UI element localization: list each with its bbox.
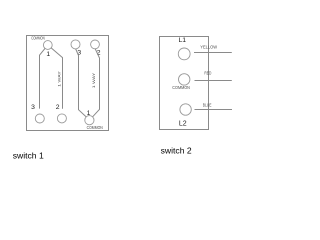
value label 1 WAY (pole B) <box>91 72 96 88</box>
terminal 3 pole A switch 1 <box>35 114 44 123</box>
switch 2 enclosure <box>160 37 209 130</box>
pin number 2 (pole A bottom) <box>56 104 60 111</box>
wire from terminal 1 to terminal 2 (pole A right) <box>51 48 63 109</box>
svg-text:1 WAY: 1 WAY <box>91 72 96 88</box>
svg-text:YELLOW: YELLOW <box>200 44 217 49</box>
label RED (wire) <box>204 71 211 76</box>
pin number 2 (pole B top) <box>97 50 101 57</box>
pin number 1 (pole B bottom) <box>87 110 91 117</box>
switch 1 enclosure <box>27 36 109 131</box>
svg-text:COMMON: COMMON <box>31 36 45 41</box>
label COMMON (switch 1 pole A top) <box>31 36 45 41</box>
terminal COMMON switch 2 <box>179 74 190 85</box>
svg-text:COMMON: COMMON <box>87 125 103 130</box>
pin number 1 (pole A) <box>46 51 50 58</box>
label COMMON (switch 1 pole B bottom) <box>87 125 103 130</box>
svg-text:1 WAY: 1 WAY <box>57 71 62 87</box>
label COMMON (switch 2) <box>172 85 190 90</box>
svg-text:L2: L2 <box>179 120 187 127</box>
wire YELLOW from terminal L1 <box>194 52 232 54</box>
svg-text:COMMON: COMMON <box>172 85 190 90</box>
terminal 3 pole B switch 1 <box>71 40 80 49</box>
caption switch 1 <box>13 150 44 160</box>
pin number 3 (pole A bottom) <box>31 104 35 111</box>
svg-text:BLUE: BLUE <box>203 103 212 108</box>
label BLUE (wire) <box>203 103 212 108</box>
label L1 (switch 2) <box>179 37 187 44</box>
wire BLUE from terminal L2 <box>195 109 233 111</box>
svg-text:1: 1 <box>46 51 50 58</box>
svg-text:RED: RED <box>204 71 211 76</box>
terminal 1 pole B switch 1 <box>85 116 94 125</box>
wire from terminal 2 to terminal 1 (pole B right) <box>93 49 100 117</box>
svg-text:switch 1: switch 1 <box>13 150 44 160</box>
value label 1 WAY (pole A) <box>57 71 62 87</box>
svg-text:L1: L1 <box>179 37 187 44</box>
terminal L2 switch 2 <box>180 104 191 115</box>
wire from terminal 3 to terminal 1 (pole B left) <box>76 49 87 117</box>
terminal 1 pole A switch 1 <box>43 41 52 50</box>
svg-text:switch 2: switch 2 <box>161 145 192 155</box>
terminal 2 pole B switch 1 <box>91 40 100 49</box>
terminal 2 pole A switch 1 <box>57 114 66 123</box>
svg-text:3: 3 <box>31 104 35 111</box>
pin number 3 (pole B top) <box>77 50 81 57</box>
caption switch 2 <box>161 145 192 155</box>
terminal L1 switch 2 <box>178 48 190 60</box>
label L2 (switch 2) <box>179 120 187 127</box>
svg-text:2: 2 <box>56 104 60 111</box>
label YELLOW (wire) <box>200 44 217 49</box>
wire from terminal 1 to terminal 3 (pole A left) <box>40 48 46 108</box>
wire RED from terminal COMMON <box>195 80 232 82</box>
